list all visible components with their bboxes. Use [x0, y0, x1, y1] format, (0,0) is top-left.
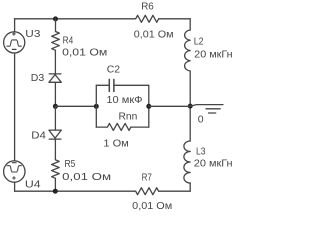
wire right rail lower	[189, 183, 191, 191]
svg-text:R4: R4	[63, 35, 74, 47]
svg-text:C2: C2	[107, 64, 121, 76]
wire RC loop top-left lead	[96, 84, 109, 86]
wire right rail upper	[189, 19, 191, 30]
svg-text:0,01 Ом: 0,01 Ом	[134, 28, 174, 40]
svg-text:Rnn: Rnn	[119, 110, 138, 122]
svg-text:0,01 Ом: 0,01 Ом	[62, 47, 107, 59]
capacitor C2	[109, 79, 114, 91]
resistor R5	[52, 160, 60, 179]
svg-text:0,01 Ом: 0,01 Ом	[132, 200, 172, 212]
resistor R6	[136, 15, 159, 22]
node 0 junction	[188, 104, 193, 109]
source U3	[4, 32, 25, 53]
svg-text:R6: R6	[141, 1, 154, 13]
wire middle branch left	[55, 105, 96, 107]
source U4	[4, 161, 25, 182]
svg-text:20 мкГн: 20 мкГн	[194, 158, 233, 170]
wire left rail bottom	[14, 182, 16, 191]
ground	[190, 105, 223, 113]
svg-text:R5: R5	[65, 158, 76, 170]
resistor R7	[136, 188, 159, 195]
node RC right	[146, 104, 151, 109]
wire bottom rail left	[15, 190, 136, 192]
inductor L3	[184, 141, 190, 183]
wire RC loop bottom-right lead	[131, 126, 149, 128]
inductor L2	[185, 30, 191, 71]
wire top rail right	[159, 18, 191, 20]
svg-text:0: 0	[198, 114, 204, 126]
svg-text:10 мкФ: 10 мкФ	[106, 94, 142, 106]
wire RC loop right vertical	[148, 85, 150, 127]
wire R4 to D3	[54, 50, 56, 74]
wire R4 upper lead	[55, 19, 57, 32]
wire top rail left	[15, 18, 136, 20]
diode D4	[49, 130, 61, 139]
svg-text:D3: D3	[31, 72, 45, 84]
node RC left	[94, 104, 99, 109]
svg-text:D4: D4	[31, 130, 46, 142]
wire RC loop left vertical	[95, 85, 97, 127]
node junction bottom	[53, 189, 58, 194]
node junction top (R4 tap)	[53, 16, 58, 21]
wire right rail middle	[189, 71, 191, 141]
svg-text:R7: R7	[142, 171, 152, 183]
svg-text:L3: L3	[196, 146, 206, 158]
svg-text:1 Ом: 1 Ом	[103, 137, 128, 149]
svg-text:20 мкГн: 20 мкГн	[194, 48, 233, 60]
svg-text:U4: U4	[25, 178, 41, 190]
svg-text:0,01 Ом: 0,01 Ом	[62, 171, 111, 183]
resistor R4	[52, 32, 60, 51]
wire D3 to mid node	[54, 82, 56, 106]
resistor Rнн	[108, 123, 131, 130]
wire left rail middle	[14, 53, 16, 161]
wire RC loop bottom-left lead	[96, 126, 107, 128]
wire R5 lower lead	[54, 178, 56, 191]
wire RC loop top-right lead	[114, 84, 149, 86]
wire left rail top	[14, 19, 16, 32]
wire bottom rail right	[159, 190, 191, 192]
svg-text:U3: U3	[25, 28, 40, 40]
svg-text:L2: L2	[194, 35, 204, 47]
node mid-left junction	[53, 104, 58, 109]
wire mid node to D4	[54, 106, 56, 130]
wire D4 to R5	[54, 139, 56, 160]
wire middle branch right	[149, 105, 190, 107]
diode D3	[49, 74, 61, 82]
